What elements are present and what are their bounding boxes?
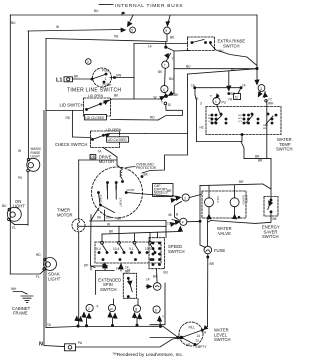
node RD label xyxy=(66,116,71,120)
svg-text:BU: BU xyxy=(164,271,169,275)
water level switch label xyxy=(214,328,231,343)
svg-text:PB: PB xyxy=(114,35,118,39)
drive motor circle xyxy=(92,167,143,218)
svg-text:W: W xyxy=(56,25,59,29)
lid open label 2 xyxy=(106,128,122,132)
timer contact 4 upper xyxy=(161,85,168,92)
svg-text:BR: BR xyxy=(239,180,244,184)
node PB label xyxy=(114,35,118,39)
node BU label on vertical xyxy=(169,77,174,81)
drive motor label xyxy=(99,154,115,164)
svg-text:9-1: 9-1 xyxy=(129,247,134,251)
water level arms xyxy=(182,331,202,338)
svg-text:10-1: 10-1 xyxy=(145,247,152,251)
water valve label xyxy=(217,226,232,236)
overload protector label xyxy=(136,163,157,171)
svg-text:LID SWITCH: LID SWITCH xyxy=(60,102,84,107)
svg-text:SWITCH: SWITCH xyxy=(214,337,231,342)
timer line switch contacts xyxy=(91,78,93,80)
wire: lid switch out to cluster xyxy=(108,99,160,101)
lid switch feed wire xyxy=(46,110,84,112)
check switch bracket wire xyxy=(71,111,73,138)
timer contact 1 xyxy=(213,97,220,104)
svg-text:T: T xyxy=(172,57,174,61)
svg-text:BU: BU xyxy=(231,68,236,72)
wire: check drop into overload xyxy=(117,165,121,168)
svg-text:5: 5 xyxy=(131,29,133,33)
svg-text:MOTOR: MOTOR xyxy=(57,212,73,217)
svg-text:HOT: HOT xyxy=(238,118,243,120)
wire: motor exit y221 xyxy=(90,220,167,223)
unbalance switch box xyxy=(123,273,136,298)
extra rinse switch box xyxy=(188,37,215,51)
svg-text:10: 10 xyxy=(110,307,114,311)
motor internal windings xyxy=(107,182,109,184)
on light label xyxy=(13,199,26,208)
svg-text:11: 11 xyxy=(235,95,239,99)
water temp contacts group 2 xyxy=(243,113,277,124)
svg-text:3: 3 xyxy=(260,87,262,91)
svg-text:ENERGY: ENERGY xyxy=(242,195,245,206)
svg-text:1o: 1o xyxy=(196,339,200,343)
water temp enclosure xyxy=(188,69,258,74)
node BU label on buss xyxy=(94,9,99,13)
cap export models only label xyxy=(153,184,174,197)
tick on buss xyxy=(121,13,123,16)
svg-text:T: T xyxy=(210,95,212,99)
svg-text:SWITCH: SWITCH xyxy=(262,234,279,239)
wire: motor lead into speed switch xyxy=(165,221,167,238)
svg-text:WAR: WAR xyxy=(263,124,268,127)
ground wire xyxy=(13,292,27,295)
motor leads down xyxy=(91,208,99,221)
svg-text:BR: BR xyxy=(167,189,172,193)
L1 plug terminal xyxy=(64,77,73,82)
wire: check switch to drive motor xyxy=(103,148,117,166)
check switch box xyxy=(91,131,120,148)
wire: contact 9 to feed wire xyxy=(166,34,168,42)
svg-text:T: T xyxy=(161,101,163,105)
timer contact 8 bottom xyxy=(133,305,140,312)
water valve solenoid hot xyxy=(230,198,239,207)
svg-text:1: 1 xyxy=(105,77,107,81)
extended spin switch box label area xyxy=(95,271,97,295)
neutral N label xyxy=(39,342,43,348)
svg-text:3: 3 xyxy=(200,102,202,106)
timer contact 10 bottom xyxy=(108,304,115,311)
timer contact 2 xyxy=(182,194,189,201)
wire: snake into motor right xyxy=(141,176,143,178)
terminal box 11 xyxy=(234,94,241,100)
svg-text:BU: BU xyxy=(94,9,99,13)
water temp switch box xyxy=(206,107,281,135)
svg-text:W: W xyxy=(18,149,21,153)
wire: snake from check box right xyxy=(145,133,188,135)
svg-text:14: 14 xyxy=(146,278,150,282)
node W label xyxy=(56,25,59,29)
lid switch box xyxy=(84,98,111,116)
svg-text:9: 9 xyxy=(97,305,99,309)
wire: check switch exit right xyxy=(111,133,146,135)
wire: valve solenoids down xyxy=(208,207,210,218)
svg-text:H2O: H2O xyxy=(238,115,243,117)
svg-text:LID OPEN: LID OPEN xyxy=(106,128,122,132)
svg-text:LIGHT: LIGHT xyxy=(48,276,61,281)
extra rinse switch contacts xyxy=(191,42,193,44)
extra rinse switch label xyxy=(218,39,246,49)
bottom bus wire xyxy=(46,326,178,337)
svg-text:AP: AP xyxy=(186,343,190,347)
ground symbol cabinet frame xyxy=(21,296,33,303)
svg-text:WH: WH xyxy=(11,287,17,291)
svg-text:BR: BR xyxy=(210,262,215,266)
check switch label xyxy=(55,142,87,147)
svg-text:EMPTY: EMPTY xyxy=(196,345,208,349)
lid closed label boxed xyxy=(84,115,106,120)
svg-text:CHECK SWITCH: CHECK SWITCH xyxy=(55,142,87,147)
wire: fuse down to water level fill xyxy=(207,254,209,327)
wire: timer motor branch from motor feed xyxy=(79,159,117,161)
svg-text:RES: RES xyxy=(114,185,118,191)
svg-text:DP: DP xyxy=(84,264,88,268)
svg-text:BU: BU xyxy=(169,77,174,81)
speed switch box xyxy=(149,238,165,269)
extended spin contacts xyxy=(98,241,156,260)
timer contact 3 xyxy=(256,69,258,84)
timer contact 9 switch arm xyxy=(168,16,171,26)
timer motor circle xyxy=(72,219,85,232)
svg-text:B4: B4 xyxy=(153,275,157,279)
timer line switch label xyxy=(67,88,121,94)
energy saver contacts xyxy=(270,199,272,201)
svg-text:6: 6 xyxy=(155,308,157,312)
wire: energy saver out xyxy=(208,213,271,224)
svg-text:SWITCH: SWITCH xyxy=(168,249,185,254)
svg-text:BR: BR xyxy=(258,159,263,163)
wire: extra rinse to buss corner xyxy=(211,44,258,66)
timer line switch dial circle xyxy=(93,68,112,87)
water temp switch label xyxy=(276,137,293,152)
wire2 end arrow xyxy=(121,28,125,32)
svg-text:46: 46 xyxy=(168,213,172,217)
svg-text:PUSH: PUSH xyxy=(103,83,113,87)
node BK label xyxy=(170,36,175,40)
svg-text:W: W xyxy=(107,223,110,227)
svg-text:PULL: PULL xyxy=(102,69,110,73)
svg-text:INTERNAL TIMER BUSS: INTERNAL TIMER BUSS xyxy=(115,3,183,9)
svg-text:9-4: 9-4 xyxy=(96,247,101,251)
check switch contacts xyxy=(92,138,94,140)
svg-text:LID CLOSED: LID CLOSED xyxy=(108,138,128,142)
wire: horizontal feed y40 to extra rinse xyxy=(46,39,166,42)
svg-text:PU: PU xyxy=(222,101,227,105)
wire: left rail to soak light xyxy=(10,270,44,274)
svg-text:FL: FL xyxy=(36,275,40,279)
wire: down through temp switch xyxy=(266,101,268,159)
on light bulb xyxy=(7,207,21,221)
wire: temp switch bottom out xyxy=(197,141,242,143)
timer contact 5 xyxy=(130,27,136,33)
speed switch label xyxy=(168,244,185,254)
svg-text:BU: BU xyxy=(11,21,16,25)
svg-text:PROTECTOR: PROTECTOR xyxy=(136,166,157,170)
svg-text:DB: DB xyxy=(91,155,95,159)
svg-text:FRAME: FRAME xyxy=(13,311,28,316)
contact 4 lower terminal xyxy=(164,102,167,105)
svg-text:RUN: RUN xyxy=(105,185,109,191)
timer contact 7 xyxy=(162,61,169,68)
node BU label left rail xyxy=(11,21,16,25)
timer line switch cam circle xyxy=(86,59,92,65)
lid switch contacts xyxy=(86,108,88,110)
wire: contact 2 to valve xyxy=(189,195,201,198)
wire: top feed over valve xyxy=(200,184,263,186)
svg-text:7: 7 xyxy=(164,64,166,68)
speed switch contacts xyxy=(152,242,161,266)
svg-text:LIGHT: LIGHT xyxy=(31,155,40,159)
svg-text:10: 10 xyxy=(168,103,172,107)
svg-text:8: 8 xyxy=(135,307,137,311)
wire: fuse line into fill contact xyxy=(205,326,208,329)
wire: right edge of spin box xyxy=(150,283,165,325)
wire: L1 to line switch xyxy=(73,78,92,80)
svg-text:W: W xyxy=(154,96,157,100)
svg-text:SWITCH: SWITCH xyxy=(223,43,240,48)
soak light label xyxy=(48,272,61,282)
wire: left vertical to fuse xyxy=(200,186,206,248)
wire: motor to contact 2 slant xyxy=(126,193,171,197)
wire: vertical to BU wire xyxy=(173,51,175,93)
wire: buss right corner down xyxy=(256,15,258,69)
wire: slant feed to extra rinse xyxy=(166,47,190,51)
svg-text:14: 14 xyxy=(148,45,152,49)
wire: contact 4 jog down to RD wire xyxy=(158,105,182,120)
extended spin contact box xyxy=(95,242,161,263)
water level pivot xyxy=(180,336,183,339)
timer box left edge xyxy=(133,44,135,100)
wire: inner 14 wire xyxy=(195,87,241,89)
svg-text:10A: 10A xyxy=(106,216,113,220)
svg-text:CONT: CONT xyxy=(127,188,135,192)
wire: lid switch bottom right to cluster xyxy=(111,119,159,122)
L1 terminal label xyxy=(56,78,62,84)
wire: internal timer buss L1 rail top xyxy=(10,14,257,16)
svg-text:1 PORT: 1 PORT xyxy=(119,198,123,208)
svg-text:RD: RD xyxy=(66,116,71,120)
wash rinse light bulb xyxy=(27,158,40,171)
wire: neutral to water level xyxy=(76,338,182,348)
wire: contact 3 down xyxy=(259,91,261,97)
wire: BU tap with arrow xyxy=(228,71,230,90)
contact 4 node xyxy=(165,95,168,98)
extended spin exits with arrows xyxy=(104,263,106,270)
energy saver label xyxy=(262,225,280,240)
soak light bulb xyxy=(44,258,57,271)
svg-text:ONLY: ONLY xyxy=(154,194,163,198)
svg-text:14: 14 xyxy=(242,84,246,88)
svg-text:H2: H2 xyxy=(200,126,204,130)
contact 4 arrows xyxy=(172,220,178,222)
svg-text:2: 2 xyxy=(88,307,90,311)
svg-text:SWITCH: SWITCH xyxy=(276,147,293,152)
internal timer buss label xyxy=(115,3,183,9)
timer contact 4 xyxy=(180,218,187,225)
svg-text:LID OPEN: LID OPEN xyxy=(88,94,104,98)
leader line xyxy=(126,167,135,168)
contact 2 arrows xyxy=(172,196,178,198)
wire: rail from corner x46 (lid circuit feed) xyxy=(45,39,47,328)
timer contact 9 xyxy=(164,27,171,34)
wire: rail x42.5 (neutral side) xyxy=(43,111,45,346)
wire: rail W from corner x28 xyxy=(27,31,29,159)
svg-text:VALVE: VALVE xyxy=(218,231,231,236)
motor start winding xyxy=(98,192,100,194)
svg-text:6T: 6T xyxy=(127,269,131,273)
wire: contact 7 down to contact 4 xyxy=(164,68,167,85)
svg-text:L1: L1 xyxy=(56,78,62,84)
water valve box xyxy=(202,191,246,218)
svg-text:COLD: COLD xyxy=(216,196,219,203)
svg-text:RD: RD xyxy=(36,253,41,257)
wire: DP drop left of box xyxy=(91,215,96,268)
check switch feed wire xyxy=(72,136,91,139)
wire: long W wire y226.3 xyxy=(79,225,166,227)
svg-text:7H: 7H xyxy=(228,98,233,102)
svg-text:0: 0 xyxy=(87,60,89,64)
timer motor label xyxy=(57,208,73,218)
legend line for internal timer buss xyxy=(99,4,113,6)
drive motor label box DB xyxy=(90,155,96,159)
terminal circle symbol xyxy=(153,283,161,291)
cabinet frame label xyxy=(12,306,31,316)
svg-text:FUSE: FUSE xyxy=(214,248,225,253)
svg-text:14: 14 xyxy=(197,334,201,338)
water valve solenoid cold xyxy=(205,198,214,207)
svg-text:RD: RD xyxy=(150,116,155,120)
svg-text:COL: COL xyxy=(238,121,243,123)
svg-text:4: 4 xyxy=(182,221,184,225)
energy saver switch box xyxy=(264,197,278,217)
lid open label xyxy=(88,94,104,98)
svg-text:LID CLOSED: LID CLOSED xyxy=(85,116,105,120)
overload protector heater coil xyxy=(120,168,122,180)
wire: hook from 2 to 4 xyxy=(175,202,182,221)
svg-text:FL: FL xyxy=(116,267,120,271)
svg-text:1: 1 xyxy=(215,100,217,104)
lid switch label xyxy=(60,102,84,107)
svg-text:WH: WH xyxy=(268,102,274,106)
svg-text:BU: BU xyxy=(186,65,191,69)
timer contact 7 switch arm xyxy=(167,54,171,61)
timer contact 6 bottom xyxy=(153,306,160,313)
hook wire above box xyxy=(91,266,107,270)
svg-text:FILL: FILL xyxy=(189,326,196,330)
wire: left inner drop xyxy=(195,88,197,142)
timer motor coil xyxy=(77,221,80,231)
svg-text:4: 4 xyxy=(163,88,165,92)
wire: feed above extended spin to contact 4 xyxy=(102,232,180,235)
wire: energy saver feed xyxy=(263,184,271,189)
wire: left rail L1 down xyxy=(9,15,11,274)
wire: neutral line xyxy=(44,346,64,347)
svg-text:FL: FL xyxy=(12,226,16,230)
water level pivot terminal xyxy=(177,336,180,339)
wire: contact 4 to left vertical xyxy=(187,220,200,223)
neutral plug terminal xyxy=(65,344,76,351)
wire: line switch output to box edge xyxy=(110,77,134,79)
svg-text:™Rendered by LeadVenture, Inc.: ™Rendered by LeadVenture, Inc. xyxy=(112,352,183,358)
svg-text:10-4: 10-4 xyxy=(113,247,120,251)
water temp contacts group 1 xyxy=(211,113,227,124)
svg-text:14: 14 xyxy=(191,84,195,88)
svg-text:BU: BU xyxy=(2,204,7,208)
wash rinse light label xyxy=(31,147,41,159)
water temp tiny labels xyxy=(208,115,268,130)
svg-text:2: 2 xyxy=(184,196,186,200)
svg-text:SAVER: SAVER xyxy=(245,195,248,203)
svg-text:SWITCH: SWITCH xyxy=(100,287,117,292)
fuse xyxy=(204,246,212,254)
svg-text:N: N xyxy=(39,342,43,348)
wire: BU horizontal y68.7 xyxy=(174,68,257,70)
node BR label on fuse line xyxy=(210,262,215,266)
timer contact 2 bottom xyxy=(86,304,93,311)
svg-text:BU: BU xyxy=(219,49,224,53)
ground lead label xyxy=(11,287,17,291)
water level switch circle xyxy=(179,322,203,346)
svg-text:T: T xyxy=(162,315,164,319)
svg-text:DW: DW xyxy=(116,74,121,78)
timer contact 5 switch arm xyxy=(130,15,133,21)
svg-text:9: 9 xyxy=(165,29,167,33)
svg-text:B: B xyxy=(176,213,178,217)
svg-text:BR: BR xyxy=(231,92,236,96)
lid closed label 2 boxed xyxy=(107,137,129,142)
